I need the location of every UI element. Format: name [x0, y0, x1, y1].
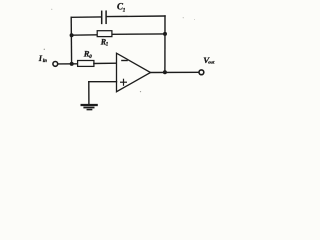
input terminal (open circle) [53, 62, 58, 67]
node: junction of right vertical with output wire [163, 70, 167, 74]
wire: R0 to op-amp inverting input [94, 62, 117, 64]
wire: op-amp output to terminal [151, 71, 199, 73]
wire: R1 branch, left segment [71, 34, 97, 36]
wire: R1 branch, right segment [112, 33, 165, 35]
capacitor C1 [102, 11, 106, 23]
scan speckles (decorative) [44, 9, 195, 92]
resistor R0 [78, 61, 94, 67]
node: junction of left vertical with R1 branch [70, 33, 74, 37]
svg-text:1: 1 [106, 43, 109, 48]
svg-text:out: out [208, 60, 215, 65]
wire: top feedback branch, capacitor to right corner [107, 15, 165, 18]
output terminal (open circle) [199, 70, 204, 75]
wire: left vertical of feedback network [70, 17, 72, 64]
wire: input terminal to junction node [58, 63, 78, 65]
op-amp non-inverting input plus sign [121, 79, 127, 85]
resistor R1 [97, 31, 112, 37]
svg-text:in: in [43, 59, 47, 64]
svg-text:1: 1 [123, 7, 126, 13]
wire: non-inverting input horizontal segment [89, 81, 117, 83]
wire: ground stem vertical [88, 82, 90, 104]
op-amp inverting input minus sign [122, 60, 127, 62]
ground symbol [82, 105, 97, 110]
node: junction of right vertical with R1 branch [163, 32, 167, 36]
node: junction of left vertical with input wire [70, 62, 74, 66]
op-amp U1 triangle [117, 53, 151, 91]
wire: top feedback branch, left segment to capacitor [71, 16, 101, 18]
wire: right vertical of feedback network [164, 16, 166, 72]
